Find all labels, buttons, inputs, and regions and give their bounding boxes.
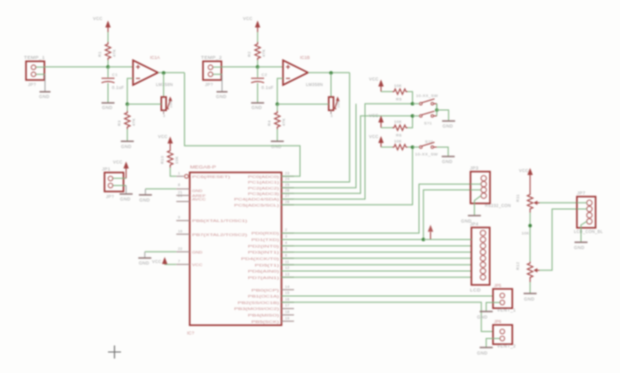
svg-text:28: 28 (285, 200, 290, 204)
wire output junction 2 to trimmer R9 (330, 73, 332, 97)
pin PC3(ADC3) pin 26 (248, 189, 294, 197)
pin PD6(AIN0) pin 12 (248, 266, 294, 274)
svg-text:19: 19 (285, 316, 290, 320)
svg-text:GND: GND (39, 94, 50, 99)
connector TEMP_1 JP? (24, 55, 45, 87)
svg-text:IC1A: IC1A (150, 55, 160, 60)
ground under R12 (524, 282, 537, 302)
op-amp IC1B LM358N (283, 55, 323, 87)
switch S3 10-XX_SW (413, 142, 449, 156)
svg-text:47K: 47K (261, 49, 266, 57)
node SW3 junction (411, 145, 415, 149)
svg-text:MEGA8-P: MEGA8-P (190, 165, 216, 170)
svg-text:16: 16 (285, 297, 290, 301)
wire net LCD D2 PD4 (282, 257, 472, 259)
wire feedback junction 2 down to R4 (276, 104, 278, 111)
svg-text:14: 14 (285, 285, 290, 289)
svg-text:PD5(T1): PD5(T1) (255, 262, 280, 267)
svg-text:GND: GND (192, 249, 203, 254)
svg-text:PC5(ADC5/SCL): PC5(ADC5/SCL) (234, 202, 280, 207)
wire TEMP_1 to node A (44, 66, 108, 68)
node B junction ch2 (256, 65, 260, 69)
svg-text:LM358N: LM358N (156, 82, 173, 87)
wire op-amp2 output (308, 72, 350, 74)
ground under supply connector (120, 186, 133, 202)
svg-text:13: 13 (285, 272, 290, 276)
node op-amp2 output junction (329, 71, 333, 75)
svg-text:20: 20 (178, 194, 183, 198)
svg-text:JP7: JP7 (577, 191, 586, 196)
svg-text:VCC: VCC (369, 77, 379, 82)
svg-text:GND: GND (139, 197, 150, 202)
svg-text:VCC: VCC (93, 16, 103, 21)
trimmer R8 (161, 96, 173, 118)
wire output junction to trimmer R8 (163, 73, 165, 97)
svg-text:23: 23 (285, 171, 290, 175)
wire R10 to /RESET pin (170, 168, 176, 177)
svg-text:PB6(XTAL1/TOSC1): PB6(XTAL1/TOSC1) (192, 218, 248, 223)
svg-text:24: 24 (285, 177, 290, 181)
svg-text:26: 26 (285, 189, 290, 193)
svg-text:25: 25 (285, 183, 290, 187)
ground backlight connector (574, 242, 588, 250)
svg-text:1: 1 (178, 171, 180, 175)
ground at MCU GND pin 8 (139, 189, 176, 203)
ground under TEMP_2 (216, 74, 228, 99)
svg-text:VENT_1: VENT_1 (497, 308, 516, 313)
node PD1 junction (422, 238, 426, 242)
pin PC1(ADC1) pin 24 (248, 177, 294, 185)
wire feedback junction 2 to trimmer (277, 103, 328, 105)
svg-text:0.1uF: 0.1uF (112, 85, 124, 90)
svg-text:PD2(INT0): PD2(INT0) (248, 244, 280, 249)
svg-text:27: 27 (285, 194, 290, 198)
svg-text:GND: GND (216, 94, 227, 99)
svg-text:18: 18 (285, 310, 290, 314)
svg-text:C1: C1 (112, 72, 118, 77)
svg-text:22: 22 (178, 247, 183, 251)
ground switch S3 (442, 157, 455, 165)
pin PC0(ADC0) pin 23 (248, 171, 294, 179)
svg-text:PD6(AIN0): PD6(AIN0) (248, 269, 280, 274)
svg-text:R6: R6 (396, 133, 402, 138)
pin AREF pin 21 (176, 191, 206, 199)
pin PB0(ICP) pin 14 (251, 285, 294, 293)
svg-text:C2: C2 (262, 72, 268, 77)
resistor R1 (97, 42, 117, 60)
pin PB6(XTAL1/TOSC1) pin 9 (176, 216, 248, 224)
wire net PWM2 PB2 to VENT_2 (282, 302, 494, 331)
power VCC arrow on TXD net (428, 225, 433, 240)
pin PC2(ADC2) pin 25 (248, 183, 294, 191)
wire net LCD D0 PD2 (282, 245, 472, 247)
svg-text:PB1(OC1A): PB1(OC1A) (248, 294, 280, 299)
wire R2 to node B (257, 60, 259, 67)
svg-text:PC1(ADC1): PC1(ADC1) (248, 180, 280, 185)
wire net ADC1 op-amp2 to PC1 (282, 73, 350, 182)
svg-text:VCC: VCC (369, 134, 379, 139)
trimmer R12 (515, 261, 539, 282)
svg-text:47K: 47K (131, 118, 136, 126)
svg-text:PB3(MOSI/OC2): PB3(MOSI/OC2) (234, 306, 280, 311)
pin PD5(T1) pin 11 (255, 260, 294, 268)
svg-text:JP4: JP4 (470, 222, 479, 227)
svg-text:GND: GND (524, 297, 535, 302)
svg-text:AVCC: AVCC (192, 197, 206, 202)
pin PD0(RXD) pin 2 (251, 228, 294, 236)
power VCC arrow switch 2 (369, 113, 384, 128)
switch S2 (413, 111, 437, 125)
ground at MCU GND pin 22 (138, 252, 176, 266)
wire op-amp1 inverting input (127, 78, 133, 104)
pin PB4(MISO) pin 18 (248, 310, 294, 318)
wire trimmer R8 bottom stub (163, 110, 165, 114)
pin PC6(/RESET) pin 1 (176, 171, 231, 179)
svg-text:10K: 10K (174, 156, 179, 164)
svg-text:47K: 47K (112, 49, 117, 57)
svg-text:0.1uF: 0.1uF (262, 85, 274, 90)
wire trimmer R9 bottom stub (330, 110, 332, 114)
power VCC arrow switch 3 (369, 134, 384, 147)
svg-text:PB0(ICP): PB0(ICP) (251, 287, 280, 292)
power VCC arrow supply connector (113, 160, 129, 179)
node feedback junction ch1 (126, 102, 130, 106)
resistor R6 10K (381, 116, 413, 138)
node A junction ch1 (106, 65, 110, 69)
resistor R5 10K (381, 83, 413, 104)
power VCC arrow contrast chain (519, 168, 533, 193)
svg-text:PB7(XTAL2/TOSC2): PB7(XTAL2/TOSC2) (192, 232, 248, 237)
svg-text:PB5(SCK): PB5(SCK) (251, 319, 280, 324)
pin GND2 pin 22 (176, 247, 202, 255)
svg-text:PD0(RXD): PD0(RXD) (251, 231, 280, 236)
ground under R4 (271, 129, 284, 149)
connector TEMP_2 JP? (201, 55, 222, 87)
svg-text:PD1(TXD): PD1(TXD) (251, 237, 280, 242)
svg-text:R3: R3 (117, 120, 122, 126)
svg-text:R11: R11 (515, 194, 520, 202)
connector JP7 LCD_CON_BL (574, 191, 603, 243)
svg-text:JP6: JP6 (494, 319, 502, 324)
svg-text:PC2(ADC2): PC2(ADC2) (248, 185, 280, 190)
origin cross mark (108, 346, 121, 359)
svg-text:PD7(AIN1): PD7(AIN1) (248, 275, 280, 280)
pin PC5(ADC5/SCL) pin 28 (234, 200, 294, 208)
wire op-amp1 output (158, 72, 185, 74)
node SW2 junction (411, 114, 415, 118)
svg-text:VCC: VCC (152, 259, 162, 264)
svg-text:VCC: VCC (369, 113, 379, 118)
power VCC arrow reset pull-up (158, 134, 173, 148)
node feedback junction ch2 (276, 102, 280, 106)
connector JP3 RS232_CON (470, 166, 511, 216)
ground under C1 (102, 83, 115, 110)
wire net LCD D5 PD7 (282, 276, 472, 278)
svg-text:R2: R2 (247, 51, 252, 57)
trimmer R9 (329, 96, 341, 118)
ground switches S1 S2 (442, 121, 455, 129)
svg-text:RS232_CON: RS232_CON (485, 203, 511, 208)
node contrast junction (528, 224, 532, 228)
pin PB5(SCK) pin 19 (251, 316, 294, 324)
svg-text:VCC: VCC (113, 160, 123, 165)
svg-text:PC0(ADC0): PC0(ADC0) (248, 174, 280, 179)
wire feedback junction to trimmer (127, 103, 161, 105)
op-amp IC1A LM358N (133, 55, 173, 87)
svg-text:PC4(ADC4/SDA): PC4(ADC4/SDA) (234, 197, 280, 202)
svg-text:GND: GND (120, 197, 131, 202)
svg-text:9: 9 (178, 216, 180, 220)
svg-text:10: 10 (178, 229, 183, 233)
pin PD7(AIN1) pin 13 (248, 272, 294, 280)
wire net SW3 to PC5 (282, 147, 413, 205)
wire R11 wiper to backlight pin1 (539, 202, 577, 204)
ground VENT_2 (477, 348, 493, 356)
svg-text:JP5: JP5 (494, 283, 502, 288)
resistor R3 (117, 111, 137, 129)
svg-text:47K: 47K (281, 118, 286, 126)
wire node A down to C1 (107, 67, 109, 78)
svg-text:TEMP_2: TEMP_2 (201, 55, 222, 60)
svg-text:R4: R4 (267, 120, 272, 126)
svg-text:JP?: JP? (28, 82, 36, 87)
pin GND pin 8 (176, 183, 202, 193)
wire R12 wiper to backlight pin2 (539, 209, 577, 270)
svg-text:S?1: S?1 (424, 121, 432, 126)
ground under R3 (121, 129, 134, 149)
svg-text:5: 5 (285, 247, 287, 251)
svg-text:JP?: JP? (205, 82, 213, 87)
pin VCC pin 7 (176, 260, 202, 268)
wire TEMP_2 to node B (221, 66, 257, 68)
resistor R4 (267, 111, 287, 129)
svg-text:10K: 10K (394, 139, 402, 144)
wire op-amp2 inverting input (277, 78, 283, 104)
ground under C2 (251, 83, 264, 110)
svg-text:12: 12 (285, 266, 290, 270)
wire switches to ground (437, 104, 449, 121)
svg-text:3: 3 (163, 114, 165, 118)
svg-text:GND: GND (252, 105, 263, 110)
svg-text:3: 3 (331, 114, 333, 118)
svg-text:LCD: LCD (470, 288, 481, 293)
svg-text:11: 11 (285, 260, 289, 264)
svg-text:10-XX_SW: 10-XX_SW (416, 93, 438, 98)
pin PB2(SS/OC1B) pin 16 (238, 297, 294, 305)
capacitor C1 0.1uF (102, 72, 125, 90)
svg-text:10K: 10K (337, 100, 341, 108)
connector JP1 supply (102, 167, 126, 199)
svg-text:VCC: VCC (519, 168, 529, 173)
svg-text:TEMP_1: TEMP_1 (24, 55, 45, 60)
node op-amp1 output junction (162, 71, 166, 75)
pin PB7(XTAL2/TOSC2) pin 10 (176, 229, 248, 237)
svg-text:VCC: VCC (192, 262, 203, 267)
power VCC arrow switch 1 (369, 77, 384, 92)
svg-text:VCC: VCC (243, 16, 253, 21)
svg-text:GND: GND (574, 245, 585, 250)
svg-text:15: 15 (285, 291, 290, 295)
trimmer R11 (515, 193, 539, 213)
wire net TXD PD1 to JP3 pin3 (282, 190, 471, 240)
wire net SW1 to PC2 and PC4 (282, 104, 413, 199)
ground under TEMP_1 (39, 74, 51, 99)
pin PB3(MOSI/OC2) pin 17 (234, 304, 294, 312)
svg-text:17: 17 (285, 304, 290, 308)
wire net LCD D4 PD6 (282, 270, 472, 272)
svg-text:6: 6 (285, 253, 287, 257)
svg-text:PC3(ADC3): PC3(ADC3) (248, 191, 280, 196)
svg-text:IC?: IC? (187, 331, 195, 336)
pin PD4(XCK/T0) pin 6 (241, 253, 294, 261)
svg-text:GND: GND (443, 124, 454, 129)
wire net LCD RS PD1 (423, 239, 471, 241)
wire net LCD D1 PD3 (282, 251, 472, 253)
svg-text:GND: GND (121, 144, 132, 149)
pin PB1(OC1A) pin 15 (248, 291, 294, 299)
power VCC arrow at MCU VCC pin 7 (152, 257, 176, 264)
svg-text:JP3: JP3 (470, 166, 479, 171)
wire net SW2 to PC3 (282, 116, 413, 193)
pin PD2(INT0) pin 4 (248, 241, 294, 249)
wire R11 to R12 (529, 213, 531, 262)
wire net LCD D3 PD5 (282, 264, 472, 266)
wire node B to op-amp 2 (258, 66, 283, 68)
svg-text:R1: R1 (97, 51, 102, 57)
wire node A to op-amp (108, 66, 133, 68)
pin PD3(INT1) pin 5 (248, 247, 294, 255)
svg-text:R10: R10 (159, 155, 164, 164)
svg-text:PB4(MISO): PB4(MISO) (248, 313, 280, 318)
svg-text:GND: GND (102, 105, 113, 110)
svg-text:8: 8 (178, 183, 180, 187)
wire node B down to C2 (257, 67, 259, 78)
ground VENT_1 (477, 312, 493, 320)
power VCC arrow channel 2 (243, 16, 260, 42)
svg-text:JP?: JP? (106, 194, 114, 199)
svg-text:R12: R12 (515, 261, 520, 270)
svg-text:PD3(INT1): PD3(INT1) (248, 250, 280, 255)
svg-text:GND: GND (139, 261, 150, 266)
wire net RXD PD0 to JP3 pin2 (282, 184, 471, 233)
connector JP5 VENT_1 (486, 283, 516, 313)
wire net ADC0 op-amp1 to PC0 (185, 73, 301, 177)
svg-text:10-XX_SW: 10-XX_SW (415, 152, 438, 157)
capacitor C2 0.1uF (251, 72, 274, 90)
connector JP6 VENT_2 (486, 319, 516, 349)
resistor R7 10K (381, 139, 433, 150)
power VCC arrow channel 1 (93, 16, 111, 42)
svg-text:LM358N: LM358N (306, 82, 323, 87)
node SW1 junction (411, 102, 415, 106)
svg-text:PD4(XCK/T0): PD4(XCK/T0) (241, 256, 280, 261)
wire R1 to node A (107, 60, 109, 67)
svg-text:GND: GND (477, 315, 488, 320)
svg-text:4: 4 (285, 241, 287, 245)
pin AVCC pin 20 (176, 194, 206, 202)
svg-text:LCD_CON_BL: LCD_CON_BL (574, 229, 603, 234)
wire net PWM1 PB1 to VENT_1 (282, 295, 494, 297)
svg-text:R5: R5 (396, 97, 402, 102)
svg-text:10K: 10K (522, 231, 530, 236)
svg-text:PB2(SS/OC1B): PB2(SS/OC1B) (238, 300, 280, 305)
wire feedback junction down to R3 (126, 104, 128, 111)
pin PD1(TXD) pin 3 (251, 235, 294, 243)
svg-text:10K: 10K (169, 100, 173, 108)
svg-text:2: 2 (285, 228, 287, 232)
svg-text:JP1: JP1 (102, 167, 111, 172)
connector JP4 LCD (470, 222, 490, 293)
svg-text:GND: GND (477, 351, 488, 356)
svg-text:GND: GND (442, 159, 453, 164)
svg-text:3: 3 (285, 235, 287, 239)
switch S1 10-XX_SW (413, 93, 439, 110)
svg-text:10K: 10K (394, 119, 402, 124)
ground JP3 pin4 (461, 216, 481, 224)
pin PC4(ADC4/SDA) pin 27 (234, 194, 294, 202)
node switch GND junction (435, 108, 439, 112)
microcontroller IC1 MEGA8-P (187, 165, 282, 336)
resistor R10 reset pull-up 10K (159, 148, 178, 168)
svg-text:VENT_2: VENT_2 (497, 344, 516, 349)
resistor R2 (247, 42, 267, 60)
svg-text:10K: 10K (394, 83, 402, 88)
svg-text:VCC: VCC (158, 134, 168, 139)
svg-text:7: 7 (178, 260, 180, 264)
svg-text:PC6(/RESET): PC6(/RESET) (192, 174, 231, 179)
svg-text:IC1B: IC1B (300, 55, 310, 60)
